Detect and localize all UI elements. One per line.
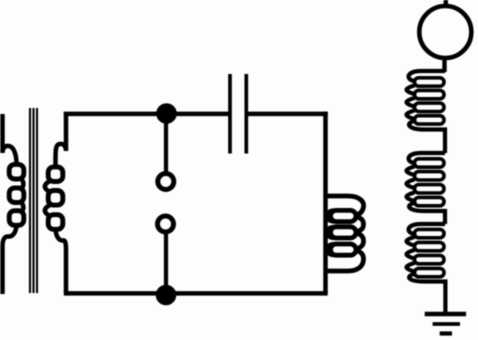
transformer T1 primary winding bottom lead xyxy=(3,224,17,294)
secondary coil L2 group 2 connector 3-4 xyxy=(407,193,415,202)
transformer T1 secondary turn 2 xyxy=(48,191,63,206)
capacitor C1 right plate xyxy=(244,74,248,154)
transformer T1 primary winding left lead xyxy=(3,114,17,164)
secondary coil L2 group 2 connector 1-2 xyxy=(407,167,415,176)
primary coil L1 turn 3 xyxy=(331,244,357,255)
secondary coil L2 group 1 connector 3-4 xyxy=(407,111,415,120)
ground bar 2 xyxy=(433,322,460,326)
topload sphere xyxy=(419,6,471,58)
transformer T1 secondary winding connector loop 1-2 xyxy=(45,180,52,193)
wire topload to secondary coil xyxy=(442,57,446,72)
secondary coil L2 group 1 turn 1 xyxy=(415,78,445,86)
primary coil L1 connector turn 2-3 xyxy=(352,232,364,249)
secondary coil L2 group 3 turn 2 xyxy=(415,242,445,250)
wire right side xyxy=(323,112,328,294)
transformer T1 primary turn 3 xyxy=(9,211,24,226)
primary coil L1 connector turn 1-2 xyxy=(352,216,364,232)
transformer T1 secondary turn 1 xyxy=(48,167,63,182)
secondary coil L2 group 3 connector 2-3 xyxy=(407,250,415,259)
node junction top xyxy=(156,103,177,124)
transformer T1 secondary winding top lead xyxy=(55,112,66,166)
secondary coil L2 group 2 connector 2-3 xyxy=(407,180,415,189)
secondary coil L2 group 1 turn 3 xyxy=(415,103,445,111)
secondary coil L2 group 1 exit xyxy=(409,121,445,153)
primary coil L1 turn 1 xyxy=(331,210,357,221)
wire spark gap lower branch xyxy=(164,233,168,295)
secondary coil L2 group 3 connector 3-4 xyxy=(407,263,415,272)
secondary coil L2 group 3 exit xyxy=(409,274,445,314)
secondary coil L2 group 2 exit xyxy=(409,203,445,224)
ground bar 3 xyxy=(440,331,452,335)
transformer T1 core line 3 xyxy=(36,108,38,293)
primary coil L1 crossover nub 3 xyxy=(326,244,333,255)
wire spark gap upper branch xyxy=(164,114,168,174)
primary coil L1 entry wire xyxy=(326,196,364,216)
primary coil L1 exit wire xyxy=(326,250,364,271)
secondary coil L2 group 3 entry xyxy=(409,224,445,234)
wire top left segment xyxy=(64,112,230,117)
secondary coil L2 group 3 turn 4 xyxy=(415,268,445,276)
secondary coil L2 group 3 turn 1 xyxy=(415,229,445,237)
secondary coil L2 group 3 connector 1-2 xyxy=(407,237,415,246)
ground bar 1 xyxy=(425,312,466,317)
transformer T1 secondary winding connector loop 2-3 xyxy=(45,204,52,217)
secondary coil L2 group 1 turn 4 xyxy=(415,116,445,124)
transformer T1 secondary winding bottom lead xyxy=(56,228,67,293)
secondary coil L2 group 2 turn 1 xyxy=(415,159,445,167)
primary coil L1 crossover nub 1 xyxy=(326,211,333,222)
transformer T1 primary turn 1 xyxy=(9,164,24,179)
topload sphere lead stub xyxy=(444,0,448,8)
transformer T1 primary winding connector loop 1-2 xyxy=(20,178,23,191)
spark gap electrode lower xyxy=(158,216,174,232)
transformer T1 secondary turn 3 xyxy=(48,215,63,230)
spark gap electrode upper xyxy=(158,174,174,190)
wire bottom xyxy=(64,291,328,296)
transformer T1 primary winding connector loop 2-3 xyxy=(20,201,23,214)
secondary coil L2 group 1 connector 2-3 xyxy=(407,98,415,107)
transformer T1 core line 2 xyxy=(32,108,34,293)
transformer T1 core line 1 xyxy=(29,108,31,293)
primary coil L1 turn 2 xyxy=(331,227,357,238)
node junction bottom xyxy=(156,285,177,306)
secondary coil L2 group 1 connector 1-2 xyxy=(407,86,415,95)
secondary coil L2 group 2 turn 3 xyxy=(415,185,445,193)
secondary coil L2 group 2 turn 2 xyxy=(415,172,445,180)
capacitor C1 left plate xyxy=(228,74,232,154)
primary coil L1 crossover nub 2 xyxy=(326,227,333,238)
transformer T1 primary turn 2 xyxy=(9,188,24,203)
secondary coil L2 group 1 turn 2 xyxy=(415,90,445,98)
secondary coil L2 group 3 turn 3 xyxy=(415,255,445,263)
secondary coil L2 group 2 turn 4 xyxy=(415,197,445,205)
wire top right segment xyxy=(246,112,327,117)
secondary coil L2 group 1 entry xyxy=(409,71,445,81)
secondary coil L2 group 2 entry xyxy=(409,153,445,163)
